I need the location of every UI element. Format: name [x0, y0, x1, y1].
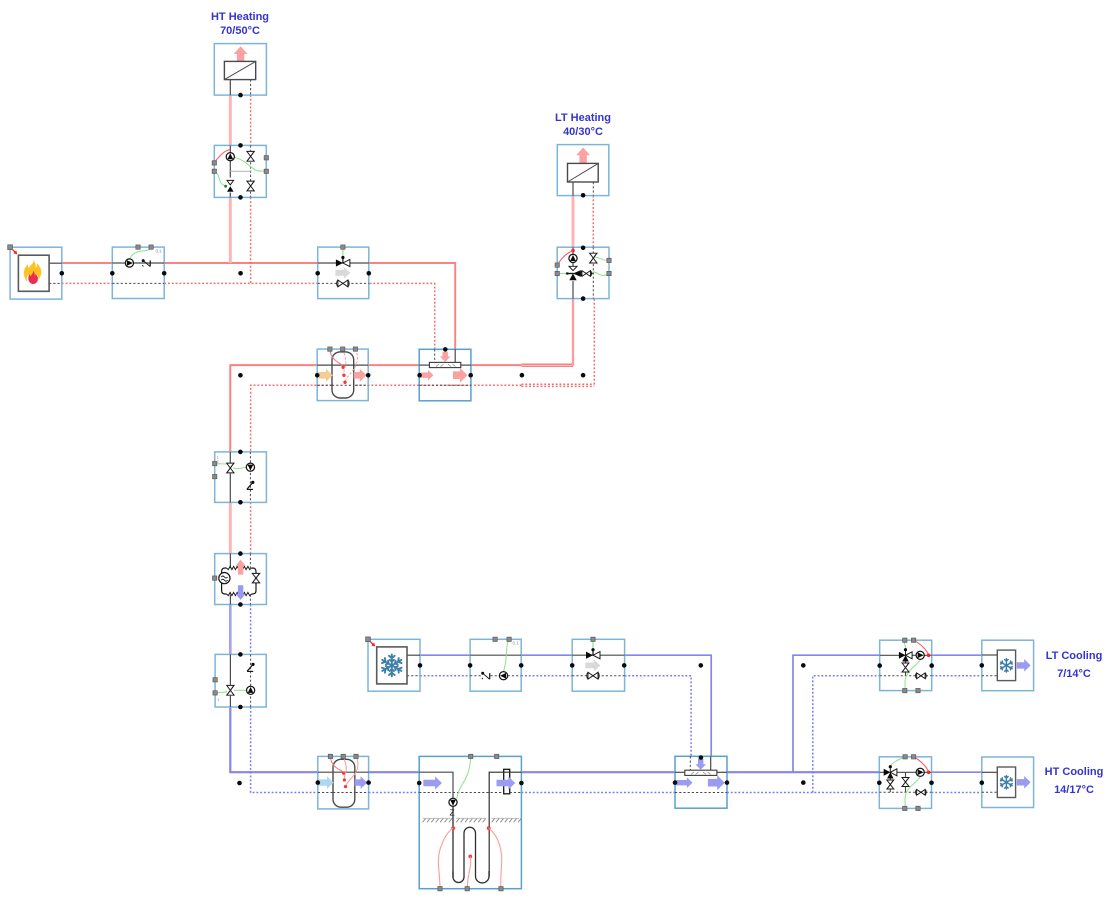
junction pump group B3 bottom	[581, 296, 586, 301]
junction HT pump box left	[877, 781, 882, 786]
wire chiller supply pump to valve box	[521, 654, 572, 656]
junction radiator A1 port	[238, 93, 243, 98]
wire HT heating supply riser upper	[229, 95, 232, 145]
junction pump group B1 top	[238, 143, 243, 148]
junction LT riser port	[581, 373, 586, 378]
wire cooling return HT box to coil	[932, 792, 982, 794]
junction condenser riser port	[238, 373, 243, 378]
wire chiller supply valve box to header	[625, 655, 712, 756]
buffer tank T1	[317, 347, 368, 401]
wire heating supply valve box to header	[369, 263, 455, 349]
junction chiller header port	[699, 663, 704, 668]
junction LT coil port	[980, 663, 985, 668]
junction buffer T2 left	[316, 780, 321, 785]
svg-text:14/17°C: 14/17°C	[1054, 784, 1094, 796]
junction pump box B0 right	[162, 271, 167, 276]
junction chiller valve box left	[570, 663, 575, 668]
junction heat pump D1 bottom	[238, 602, 243, 607]
pump group L2	[879, 755, 931, 811]
wire cooling supply header to HT box	[727, 771, 879, 773]
junction pump box B0 left	[110, 271, 115, 276]
wire LT heating return riser top	[592, 196, 594, 248]
radiator A1 HT Heating	[214, 44, 266, 96]
junction cooling header H2 top	[699, 755, 704, 760]
junction trunk node HT	[801, 780, 806, 785]
wire condenser supply to heat pump	[229, 502, 232, 553]
svg-text:HT Cooling: HT Cooling	[1045, 766, 1104, 778]
cooling coil K1	[982, 640, 1034, 691]
wire heating return pump box to valve box	[164, 282, 318, 284]
junction borefield G1 right	[519, 781, 524, 786]
pump box B0	[112, 245, 164, 299]
wire heating supply boiler to pump box	[62, 262, 113, 264]
junction valve box C2 top	[238, 652, 243, 657]
junction valve box C1 top	[238, 450, 243, 455]
pump group B1	[212, 145, 268, 197]
junction valve box C2 bottom	[238, 705, 243, 710]
wire HT heating return riser upper	[250, 95, 252, 145]
junction node LT supply	[520, 373, 525, 378]
wire LT cooling supply to coil	[932, 654, 982, 656]
junction chiller valve box right	[622, 663, 627, 668]
chiller	[366, 637, 420, 691]
wire heating supply node to riser lower	[522, 365, 574, 367]
wire evaporator supply riser	[230, 707, 317, 772]
junction LT pump box right	[929, 663, 934, 668]
junction LT branch node	[801, 663, 806, 668]
wire heating supply buffer to header	[368, 364, 419, 366]
pump group B3	[555, 247, 611, 298]
junction heat pump D1 top	[238, 551, 243, 556]
wire cooling supply borefield to header	[521, 771, 675, 773]
wire heating return header to valve box	[369, 283, 435, 349]
wire cooling return header to HT box	[727, 792, 879, 794]
wire evaporator return riser	[251, 707, 318, 792]
wire LT cooling supply branch	[793, 655, 880, 772]
heat pump D1	[213, 554, 267, 605]
junction chiller pump box right	[519, 663, 524, 668]
junction HT coil port	[980, 780, 985, 785]
wire LT heating return upper	[522, 383, 595, 385]
junction buffer T1 right	[366, 373, 371, 378]
wire cooling return buffer to borefield	[369, 792, 420, 794]
junction HT riser port	[238, 271, 243, 276]
wire HT heating return riser lower	[250, 197, 252, 283]
junction pump group B1 bottom	[238, 195, 243, 200]
wire cooling return borefield to header	[521, 792, 675, 794]
pump group L1	[880, 638, 932, 693]
junction LT pump box left	[877, 663, 882, 668]
label LT Cooling	[1046, 650, 1103, 680]
wire chiller supply to pump box	[420, 654, 470, 656]
wire heating supply header to node	[471, 364, 522, 366]
wire heating return boiler to pump box	[62, 282, 113, 284]
svg-text:LT Heating: LT Heating	[555, 112, 611, 124]
wire LT heating return riser	[593, 299, 595, 385]
valve box V1	[318, 245, 369, 299]
wire condenser return to heat pump	[250, 502, 252, 553]
junction radiator A2 port	[581, 193, 586, 198]
wire evaporator return to valve box	[250, 605, 252, 655]
wire cooling supply buffer to borefield	[369, 771, 420, 773]
open header B2	[419, 349, 471, 401]
svg-text:0.1: 0.1	[156, 249, 163, 254]
wire heating supply pump box to valve box	[164, 262, 318, 264]
wire LT heating supply riser	[572, 299, 574, 366]
wire LT cooling return branch	[813, 676, 880, 793]
pump box P2	[470, 637, 521, 691]
svg-text:7/14°C: 7/14°C	[1057, 668, 1091, 680]
cooling coil K2	[982, 757, 1034, 808]
wire chiller return valve box to header	[625, 676, 692, 757]
junction header B2 right	[468, 373, 473, 378]
wire chiller return pump to valve box	[521, 675, 572, 677]
borefield G1	[419, 754, 521, 891]
junction header B2 left	[417, 373, 422, 378]
svg-text:Z: Z	[450, 808, 455, 818]
junction cooling header H2 right	[725, 780, 730, 785]
svg-text:70/50°C: 70/50°C	[220, 25, 260, 37]
wire chiller return to pump box	[420, 675, 470, 677]
label HT Heating	[211, 11, 269, 37]
wire condenser return riser	[251, 385, 522, 452]
junction valve box V1 left	[315, 271, 320, 276]
wire cooling supply HT box to coil	[932, 771, 982, 773]
junction buffer T2 right	[366, 780, 371, 785]
wire LT heating supply riser top	[572, 196, 575, 248]
junction chiller pump box left	[468, 663, 473, 668]
boiler	[8, 245, 62, 299]
wire evaporator supply to valve box	[229, 605, 232, 655]
wire condenser supply riser	[230, 365, 317, 452]
label HT Cooling	[1045, 766, 1104, 796]
junction header B2 top	[443, 347, 448, 352]
wire LT heating return lower	[522, 385, 595, 387]
svg-text:LT Cooling: LT Cooling	[1046, 650, 1103, 662]
valve box C2	[213, 654, 266, 707]
junction pump group B3 top	[581, 246, 586, 251]
wire heating supply node to riser upper	[522, 363, 574, 365]
junction evaporator trunk port	[237, 781, 242, 786]
junction HT pump box right	[929, 781, 934, 786]
junction cooling header H2 left	[673, 780, 678, 785]
junction chiller port	[418, 663, 423, 668]
junction borefield G1 left	[417, 781, 422, 786]
wire HT heating supply riser lower	[229, 197, 232, 263]
valve box V2	[572, 637, 624, 691]
buffer tank T2	[318, 754, 369, 809]
valve box C1	[213, 452, 267, 503]
open header H2	[675, 756, 727, 808]
junction boiler port	[60, 271, 65, 276]
svg-text:0.1: 0.1	[513, 641, 520, 646]
label LT Heating	[555, 112, 611, 138]
junction valve box C1 bottom	[238, 500, 243, 505]
svg-text:HT Heating: HT Heating	[211, 11, 269, 23]
svg-text:40/30°C: 40/30°C	[563, 126, 603, 138]
radiator A2 LT Heating	[557, 145, 609, 196]
junction buffer T1 left	[315, 373, 320, 378]
junction valve box V1 right	[367, 271, 372, 276]
wire LT cooling return to coil	[932, 675, 982, 677]
